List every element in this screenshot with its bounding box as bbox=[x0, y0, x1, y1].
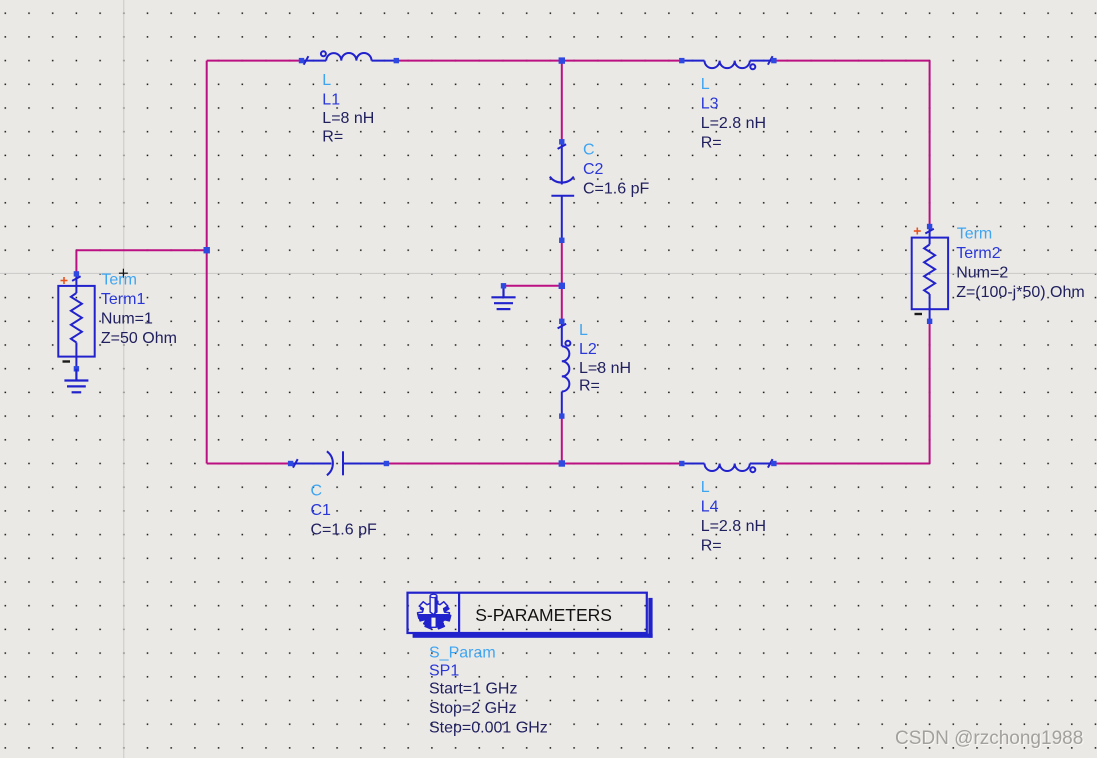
inductor L3 bbox=[679, 56, 777, 69]
svg-text:L1: L1 bbox=[322, 92, 340, 109]
svg-text:Term2: Term2 bbox=[956, 245, 1001, 262]
svg-text:L=8 nH: L=8 nH bbox=[579, 360, 631, 377]
crosshair vertical line bbox=[123, 0, 125, 758]
wire bottom segment right bbox=[774, 463, 930, 465]
svg-text:R=: R= bbox=[322, 129, 343, 146]
L2 labels bbox=[579, 322, 631, 395]
svg-text:C=1.6 pF: C=1.6 pF bbox=[311, 522, 377, 539]
wire bottom segment middle bbox=[386, 463, 681, 465]
svg-text:S_Param: S_Param bbox=[429, 645, 496, 662]
L3 labels bbox=[701, 76, 766, 152]
C2 labels bbox=[583, 142, 649, 198]
inductor L4 bbox=[679, 459, 777, 472]
junction bottom center node bbox=[559, 460, 565, 466]
svg-text:L: L bbox=[322, 72, 331, 89]
wire center vertical middle bbox=[561, 240, 563, 321]
wire left vertical bbox=[206, 61, 208, 464]
svg-text:L: L bbox=[701, 76, 710, 93]
wire Term1 tap vertical bbox=[75, 250, 77, 274]
svg-text:R=: R= bbox=[579, 378, 600, 395]
svg-text:Num=2: Num=2 bbox=[956, 265, 1008, 282]
Term1 plus mark bbox=[61, 277, 68, 284]
ground under Term1 bbox=[64, 369, 88, 393]
svg-text:Z=50 Ohm: Z=50 Ohm bbox=[101, 330, 177, 347]
svg-text:L=8 nH: L=8 nH bbox=[322, 110, 374, 127]
junction ground tap node bbox=[559, 283, 565, 289]
wire top segment 2 bbox=[396, 60, 682, 62]
svg-text:L: L bbox=[701, 479, 710, 496]
capacitor C2 bbox=[550, 139, 574, 243]
wire center vertical lower bbox=[561, 416, 563, 463]
L4 labels bbox=[701, 479, 766, 555]
terminal Term2 bbox=[912, 224, 948, 324]
wire right vertical upper bbox=[929, 61, 931, 227]
svg-text:C2: C2 bbox=[583, 161, 604, 178]
svg-text:Term: Term bbox=[957, 226, 993, 243]
capacitor C1 bbox=[288, 451, 389, 475]
wire center vertical top bbox=[561, 61, 563, 142]
svg-text:CSDN @rzchong1988: CSDN @rzchong1988 bbox=[895, 728, 1083, 749]
svg-text:C=1.6 pF: C=1.6 pF bbox=[583, 181, 649, 198]
L1 labels bbox=[322, 72, 374, 146]
svg-text:R=: R= bbox=[701, 135, 722, 152]
svg-text:Term: Term bbox=[101, 272, 137, 289]
svg-text:C: C bbox=[311, 483, 323, 500]
Term2 minus mark bbox=[915, 313, 923, 315]
junction at Term1 tap bbox=[204, 247, 210, 253]
inductor L1 bbox=[299, 51, 399, 64]
wire top segment 3 bbox=[774, 60, 930, 62]
svg-text:SP1: SP1 bbox=[429, 663, 459, 680]
svg-text:S-PARAMETERS: S-PARAMETERS bbox=[475, 605, 612, 625]
wire bottom segment left bbox=[207, 463, 291, 465]
gear icon bbox=[418, 594, 451, 629]
S-PARAMETERS controller box bbox=[408, 593, 653, 638]
svg-text:Z=(100-j*50) Ohm: Z=(100-j*50) Ohm bbox=[956, 284, 1084, 301]
svg-text:L: L bbox=[579, 322, 588, 339]
inductor L2 bbox=[558, 319, 571, 419]
svg-text:Stop=2 GHz: Stop=2 GHz bbox=[429, 700, 517, 717]
S_Param labels bbox=[429, 645, 548, 737]
C1 labels bbox=[311, 483, 377, 539]
terminal Term1 bbox=[58, 271, 94, 371]
svg-text:Num=1: Num=1 bbox=[101, 311, 153, 328]
svg-text:L4: L4 bbox=[701, 499, 719, 516]
wire top segment 1 bbox=[207, 60, 302, 62]
svg-text:Term1: Term1 bbox=[101, 291, 146, 308]
wire Term1 tap horizontal bbox=[76, 249, 206, 251]
wire right vertical lower bbox=[929, 321, 931, 463]
svg-text:L3: L3 bbox=[701, 96, 719, 113]
junction top center node bbox=[559, 57, 565, 63]
svg-text:R=: R= bbox=[701, 538, 722, 555]
Term2 plus mark bbox=[914, 228, 921, 235]
svg-text:C: C bbox=[583, 142, 595, 159]
ground center bbox=[491, 283, 515, 309]
svg-text:Start=1 GHz: Start=1 GHz bbox=[429, 681, 517, 698]
svg-text:L=2.8 nH: L=2.8 nH bbox=[701, 115, 766, 132]
svg-text:Step=0.001 GHz: Step=0.001 GHz bbox=[429, 720, 548, 737]
wire ground tap bbox=[504, 285, 562, 287]
crosshair horizontal line bbox=[0, 272, 1097, 274]
cursor cross bbox=[119, 269, 128, 278]
Term2 labels bbox=[956, 226, 1084, 302]
Term1 minus mark bbox=[63, 360, 71, 362]
watermark bbox=[895, 728, 1084, 750]
svg-text:C1: C1 bbox=[311, 502, 332, 519]
svg-text:L=2.8 nH: L=2.8 nH bbox=[701, 518, 766, 535]
svg-text:L2: L2 bbox=[579, 341, 597, 358]
Term1 labels bbox=[101, 272, 177, 348]
